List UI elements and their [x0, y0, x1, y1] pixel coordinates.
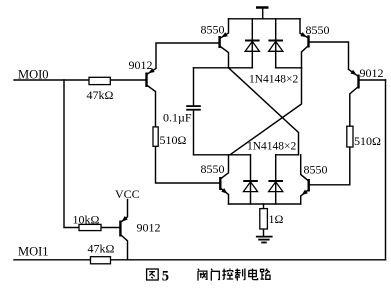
svg-text:47kΩ: 47kΩ — [88, 241, 115, 255]
svg-text:1N4148×2: 1N4148×2 — [247, 141, 297, 153]
svg-text:VCC: VCC — [115, 187, 140, 201]
svg-text:1Ω: 1Ω — [269, 212, 284, 226]
svg-text:MOI1: MOI1 — [18, 245, 49, 259]
svg-text:10kΩ: 10kΩ — [73, 212, 100, 226]
svg-text:47kΩ: 47kΩ — [87, 88, 114, 102]
svg-text:9012: 9012 — [137, 220, 161, 234]
svg-text:1N4148×2: 1N4148×2 — [249, 74, 299, 86]
svg-text:MOI0: MOI0 — [18, 68, 49, 82]
svg-text:5: 5 — [162, 268, 169, 284]
svg-text:8550: 8550 — [306, 23, 330, 37]
svg-text:8550: 8550 — [201, 23, 225, 37]
svg-text:8550: 8550 — [201, 162, 225, 176]
svg-text:510Ω: 510Ω — [354, 134, 381, 148]
svg-text:510Ω: 510Ω — [160, 133, 187, 147]
svg-text:0.1µF: 0.1µF — [163, 111, 192, 125]
svg-text:8550: 8550 — [304, 162, 328, 176]
svg-text:9012: 9012 — [129, 58, 153, 72]
svg-text:9012: 9012 — [360, 66, 384, 80]
